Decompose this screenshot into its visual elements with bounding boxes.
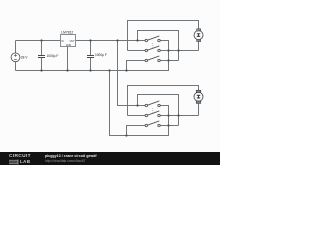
junction C2 bottom on ground rail <box>89 69 91 71</box>
junction v5 on motor1 bottom line <box>177 49 179 51</box>
junction rail to cluster2 feed <box>116 39 118 41</box>
switch SW4 cluster2 row1 <box>145 101 160 107</box>
motor M1 <box>194 29 203 42</box>
junction regulator GND on ground rail <box>66 69 68 71</box>
dashed gang link cluster1 <box>152 43 154 48</box>
capacitor C1 top lead <box>41 41 43 56</box>
wire regulator GND stem <box>67 47 69 71</box>
wire row1 right down v4 cluster2 <box>159 106 169 136</box>
svg-text:GND: GND <box>66 44 72 47</box>
junction row3 left on ground rail <box>125 69 127 71</box>
junction row3 left on ground line cluster2 <box>125 134 127 136</box>
wire motor1 bottom stem <box>198 41 200 50</box>
voltage source plus minus <box>14 54 17 59</box>
wire source top stem <box>15 41 17 54</box>
voltage source V1 circle <box>11 53 20 62</box>
junction C1 bottom on ground rail <box>40 69 42 71</box>
junction C2 top on 12V rail <box>89 39 91 41</box>
wire row2 right to motor2 bottom <box>159 115 199 117</box>
wire top rail left: source to regulator IN <box>16 40 61 42</box>
switch SW1 cluster1 row1 <box>145 36 160 42</box>
junction v4 on row3 line <box>167 59 169 61</box>
wire row2 right to motor1 bottom <box>159 50 199 52</box>
junction C1 top on 12V rail <box>40 39 42 41</box>
dashed gang link cluster2 <box>152 108 154 113</box>
capacitor C2 top lead <box>90 41 92 56</box>
junction ground rail to cluster2 feed <box>108 69 110 71</box>
wire motor2 bottom stem <box>198 103 200 116</box>
wire row3 right cluster1 <box>159 60 179 62</box>
wire box-top line cluster1 <box>138 31 179 61</box>
capacitor C1 plates <box>38 56 45 58</box>
capacitor C2 bottom lead <box>90 58 92 71</box>
svg-text:1000µ F: 1000µ F <box>95 53 107 57</box>
wire rail regulator OUT to switch row1 <box>75 40 146 42</box>
switch SW6 cluster2 row3 <box>145 121 160 127</box>
wire box-top line cluster2 <box>138 95 179 126</box>
wire row3 left cluster1 <box>127 61 147 71</box>
capacitor C1 bottom lead <box>41 58 43 71</box>
svg-text:28 V: 28 V <box>21 56 28 60</box>
wire v1 rail feed down to cluster2 <box>118 41 147 106</box>
wire row2 left cluster2 <box>128 115 147 117</box>
switch SW2 cluster1 row2 <box>145 46 160 52</box>
wire row3 right cluster2 <box>159 125 179 127</box>
svg-text:LM7812: LM7812 <box>61 30 73 34</box>
motor M2 <box>194 90 203 103</box>
watermark bar <box>0 152 220 165</box>
wire row2 left cluster1 <box>128 50 147 52</box>
junction v4 on motor2 bottom line <box>167 114 169 116</box>
wire row1 right down v4 <box>159 41 169 71</box>
junction rail to box-top branch <box>136 39 138 41</box>
wire gnd feed down to cluster2 <box>110 71 169 136</box>
switch SW5 cluster2 row2 <box>145 111 160 117</box>
wire source bottom stem <box>15 62 17 71</box>
wire motor1 top line <box>128 21 199 51</box>
switch SW3 cluster1 row3 <box>145 56 160 62</box>
svg-text:IN: IN <box>61 40 64 43</box>
junction v5 on motor2 bottom line <box>177 114 179 116</box>
junction v4 on motor1 bottom line <box>167 49 169 51</box>
svg-text:1000µ F: 1000µ F <box>47 54 59 58</box>
junction rail2 to box-top branch cluster2 <box>136 104 138 106</box>
wire ground rail <box>16 41 169 71</box>
wire row3 left cluster2 <box>127 126 147 136</box>
svg-text:OUT: OUT <box>70 40 76 43</box>
capacitor C2 plates <box>87 56 94 58</box>
regulator U1 LM7812 box <box>61 35 76 47</box>
junction v4 on row3 line cluster2 <box>167 124 169 126</box>
wire motor2 top line <box>128 86 199 116</box>
